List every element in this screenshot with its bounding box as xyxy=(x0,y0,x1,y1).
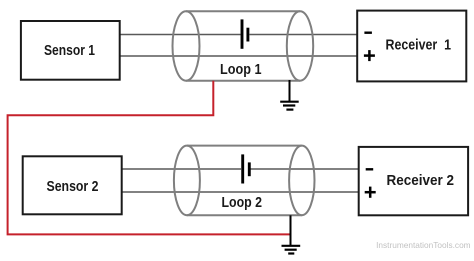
minus terminal of Receiver 1 xyxy=(364,32,372,34)
wire: battery B2 positive to Receiver 2 minus terminal xyxy=(250,168,359,170)
receiver box Receiver 1 xyxy=(357,11,466,82)
plus terminal of Receiver 1 xyxy=(364,50,375,61)
cable shield (cylinder) Loop 2 xyxy=(174,146,315,216)
plus terminal of Receiver 2 xyxy=(365,187,376,198)
cable shield (cylinder) Loop 1 xyxy=(173,11,314,80)
wire (red): Loop 1 shield drain to common ground bus xyxy=(8,81,290,235)
ground symbol G2 (shield of Loop 2 and red ground bus) xyxy=(282,215,301,253)
svg-text:Loop 2: Loop 2 xyxy=(222,194,263,211)
ground symbol G1 (shield of Loop 1) xyxy=(280,80,299,110)
sensor box Sensor 2 xyxy=(23,156,122,214)
svg-text:Loop 1: Loop 1 xyxy=(220,61,262,78)
svg-text:Sensor 1: Sensor 1 xyxy=(44,42,95,59)
wire: battery B1 positive to Receiver 1 minus terminal xyxy=(250,34,358,36)
wire: Sensor 1 upper lead to battery B1 negative xyxy=(120,34,241,36)
sensor box Sensor 1 xyxy=(21,21,120,80)
svg-text:InstrumentationTools.com: InstrumentationTools.com xyxy=(376,240,471,250)
svg-text:Receiver 1: Receiver 1 xyxy=(386,37,452,54)
svg-text:Sensor 2: Sensor 2 xyxy=(47,178,99,195)
battery B1 xyxy=(242,19,248,48)
minus terminal of Receiver 2 xyxy=(366,168,374,170)
svg-text:Receiver 2: Receiver 2 xyxy=(387,172,455,189)
wire: Sensor 1 lower lead to Receiver 1 plus terminal xyxy=(120,55,358,57)
wire: Sensor 2 lower lead to Receiver 2 plus terminal xyxy=(122,191,360,193)
wire: Sensor 2 upper lead to battery B2 negative xyxy=(122,168,242,170)
battery B2 xyxy=(243,154,250,183)
receiver box Receiver 2 xyxy=(359,147,468,215)
